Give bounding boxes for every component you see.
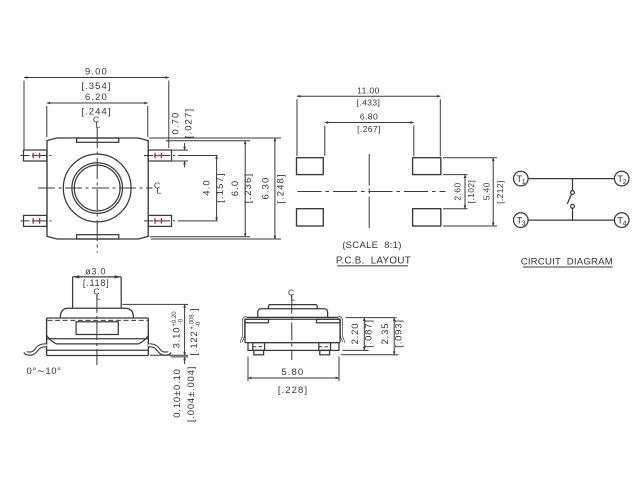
sv1 skirt upper line xyxy=(47,338,149,340)
sv2 left foot dashed line xyxy=(253,346,265,348)
svg-text:L: L xyxy=(96,292,101,302)
sv1 body top edge xyxy=(47,317,149,319)
dimension 5.40 line xyxy=(443,158,497,226)
button outer circle xyxy=(63,154,131,222)
top view cover tab (bottom edge) xyxy=(77,235,119,239)
label T4 xyxy=(617,216,626,228)
sv1 left gull-wing lead xyxy=(25,345,46,353)
lead bottom-right centerline extended to 4.0 dimension xyxy=(144,220,178,222)
svg-text:6.20: 6.20 xyxy=(85,92,108,103)
sv2 right foot upper xyxy=(319,343,331,351)
dimension 4.0 line xyxy=(216,156,218,221)
sv2 body sides xyxy=(244,319,246,342)
svg-text:3: 3 xyxy=(522,221,526,228)
svg-text:[.004±.004]: [.004±.004] xyxy=(186,366,197,422)
top view vertical centerline xyxy=(96,127,98,253)
sv1 body sides xyxy=(46,318,48,356)
sv1 hidden edge dashed xyxy=(48,319,148,321)
sv1 base plate bottom xyxy=(47,355,149,357)
dimension 2.60 line xyxy=(443,175,468,209)
lead bottom-left centerline xyxy=(21,220,53,222)
lead top-right centerline extended to 4.0 dimension xyxy=(144,155,178,157)
svg-text:[.212]: [.212] xyxy=(495,180,505,204)
seating plane extension xyxy=(150,354,188,356)
svg-text:11.00: 11.00 xyxy=(357,85,380,95)
pad top-left xyxy=(297,158,324,175)
dimension 0.70 (lead width) xyxy=(172,143,188,168)
title underline xyxy=(337,265,408,267)
button inner circle xyxy=(74,165,120,211)
sv1 dome xyxy=(60,308,133,318)
svg-text:2: 2 xyxy=(623,179,627,186)
sv2 cover flange line xyxy=(247,316,339,318)
svg-text:6.0: 6.0 xyxy=(230,180,241,197)
wire T1 to T2 xyxy=(528,178,614,180)
lead bottom-left xyxy=(24,215,47,226)
svg-text:CIRCUIT DIAGRAM: CIRCUIT DIAGRAM xyxy=(521,257,613,268)
dim text [.122 +.008/-0] rotated xyxy=(189,308,202,355)
sv2 left corner notch xyxy=(245,319,269,323)
svg-text:(SCALE 8:1): (SCALE 8:1) xyxy=(342,240,402,251)
svg-text:4: 4 xyxy=(623,221,627,228)
dimension 11.00 line xyxy=(297,96,440,156)
dim 2.20 bottom extension xyxy=(343,349,369,351)
dimension 6.30 line xyxy=(149,138,281,239)
sv1 dimension lines xyxy=(73,275,188,364)
centerline symbol sv1 xyxy=(94,287,102,302)
svg-text:1: 1 xyxy=(522,179,526,186)
terminal T1 circle xyxy=(514,171,529,186)
svg-text:L: L xyxy=(157,186,162,196)
terminal T2 circle xyxy=(614,171,629,186)
pcb horizontal centerline xyxy=(298,191,446,193)
lead top-left centerline xyxy=(21,155,53,157)
sv2 right foot lower xyxy=(320,350,330,354)
sv1 inner recess xyxy=(76,322,118,335)
dimension 6.0 line xyxy=(150,141,250,237)
sv1 plunger stem xyxy=(73,276,122,278)
dim 2.20 line xyxy=(363,318,365,351)
sv1 skirt lower line xyxy=(57,343,139,345)
terminal T4 circle xyxy=(614,213,629,228)
sv1 right gull-wing lead xyxy=(148,345,169,353)
svg-text:ø3.0: ø3.0 xyxy=(85,267,106,277)
pad bottom-right xyxy=(413,209,441,226)
svg-text:[.354]: [.354] xyxy=(81,81,111,92)
dim text 3.10 +0.20/-0 rotated xyxy=(172,311,185,349)
svg-text:[.027]: [.027] xyxy=(184,108,195,138)
svg-text:6.80: 6.80 xyxy=(360,112,378,122)
dim 2.35 bottom extension xyxy=(341,354,399,356)
svg-text:-0: -0 xyxy=(196,321,202,327)
svg-text:+.008: +.008 xyxy=(190,314,196,330)
sv1 vertical centerline xyxy=(96,295,98,365)
switch upper contact circle xyxy=(571,191,575,195)
svg-text:P.C.B. LAYOUT: P.C.B. LAYOUT xyxy=(336,256,411,267)
svg-text:5.40: 5.40 xyxy=(482,182,492,200)
centerline symbol top view top xyxy=(93,115,101,130)
dimension 9.00 line xyxy=(24,78,169,150)
switch lower contact circle xyxy=(571,204,575,208)
svg-text:0.70: 0.70 xyxy=(171,112,182,135)
lead top-right xyxy=(148,150,171,161)
svg-text:[.248]: [.248] xyxy=(275,173,286,203)
lead bottom-right red mark xyxy=(154,218,163,224)
centerline symbol top view right xyxy=(154,181,162,196)
button middle circle xyxy=(72,163,123,214)
pad top-right xyxy=(413,158,441,175)
svg-text:[.087]: [.087] xyxy=(363,319,374,348)
dim 3.10 extension from stem bottom xyxy=(123,303,189,305)
label T3 xyxy=(516,216,525,228)
svg-text:4.0: 4.0 xyxy=(202,179,213,196)
sv2 base strip xyxy=(248,343,339,351)
sv1 skirt chamfer curves xyxy=(47,335,149,344)
svg-text:+0.20: +0.20 xyxy=(172,311,178,327)
svg-text:2.35: 2.35 xyxy=(380,323,391,345)
sv2 body top edge xyxy=(245,318,340,320)
sv1 texts xyxy=(83,267,110,288)
pad bottom-left xyxy=(297,209,324,226)
centerline symbol sv2 xyxy=(288,288,296,303)
svg-text:9.00: 9.00 xyxy=(85,67,108,78)
svg-text:[.122: [.122 xyxy=(189,330,200,355)
sv2 left clip xyxy=(242,317,247,342)
sv1 base plate top xyxy=(47,349,149,351)
svg-text:2.60: 2.60 xyxy=(453,182,463,200)
sv2 right corner notch xyxy=(317,319,341,323)
foot bottom extension xyxy=(171,356,189,358)
top view cover tab (top edge) xyxy=(77,138,119,142)
dim top extension sv2 xyxy=(346,317,397,319)
lead top-left xyxy=(24,150,47,161)
sv2 left foot lower xyxy=(254,350,264,354)
dim 0.10 lower arrow xyxy=(184,357,186,364)
label T1 xyxy=(516,174,525,186)
terminal T3 circle xyxy=(514,213,529,228)
circuit title underline xyxy=(523,266,613,268)
sv2 top plateau xyxy=(269,305,318,309)
svg-text:-0: -0 xyxy=(179,318,185,324)
dimension 6.20 line xyxy=(47,103,148,137)
svg-text:5.80: 5.80 xyxy=(281,367,304,378)
sv2 second tier xyxy=(258,309,328,318)
svg-text:0.10±0.10: 0.10±0.10 xyxy=(172,368,183,417)
label T2 xyxy=(617,174,626,186)
switch lower stem wire xyxy=(572,208,574,220)
pcb vertical centerline xyxy=(368,154,370,228)
sv2 left foot upper xyxy=(253,343,265,351)
dim 3.10 vertical line xyxy=(184,304,186,355)
svg-text:2.20: 2.20 xyxy=(350,323,361,345)
top view dimension texts xyxy=(81,67,286,204)
wire T3 to T4 xyxy=(528,219,614,221)
svg-text:L: L xyxy=(291,293,296,303)
svg-text:[.102]: [.102] xyxy=(466,180,476,204)
svg-text:[.236]: [.236] xyxy=(243,173,254,203)
lead top-left red mark xyxy=(32,153,41,159)
dim 2.35 line xyxy=(393,318,395,355)
switch upper stem wire xyxy=(572,179,574,191)
dimension 6.80 line xyxy=(325,123,414,157)
sv2 right clip xyxy=(338,317,343,342)
top view body outline xyxy=(47,138,148,239)
svg-text:]: ] xyxy=(189,308,200,311)
top view horizontal centerline xyxy=(38,187,153,189)
lead bottom-left red mark xyxy=(32,218,41,224)
sv2 dimension lines xyxy=(248,318,399,381)
svg-text:6.30: 6.30 xyxy=(261,177,272,200)
svg-text:0°∼10°: 0°∼10° xyxy=(26,366,61,377)
svg-text:[.157]: [.157] xyxy=(215,172,226,202)
svg-text:[.267]: [.267] xyxy=(357,124,381,134)
svg-text:[.433]: [.433] xyxy=(357,97,381,107)
sv2 right foot dashed line xyxy=(319,346,331,348)
svg-text:L: L xyxy=(96,120,101,130)
sv2 body bottom line xyxy=(245,342,340,344)
dim line diameter 3.0 arrows xyxy=(73,275,122,278)
switch arm xyxy=(567,194,571,204)
dim 5.80 line xyxy=(248,377,339,379)
svg-text:[.093]: [.093] xyxy=(394,319,405,348)
sv2 vertical centerline xyxy=(291,296,293,361)
lead bottom-right xyxy=(148,215,171,226)
svg-text:[.228]: [.228] xyxy=(278,385,308,396)
lead top-right red mark xyxy=(154,153,163,159)
svg-text:3.10: 3.10 xyxy=(172,327,183,349)
